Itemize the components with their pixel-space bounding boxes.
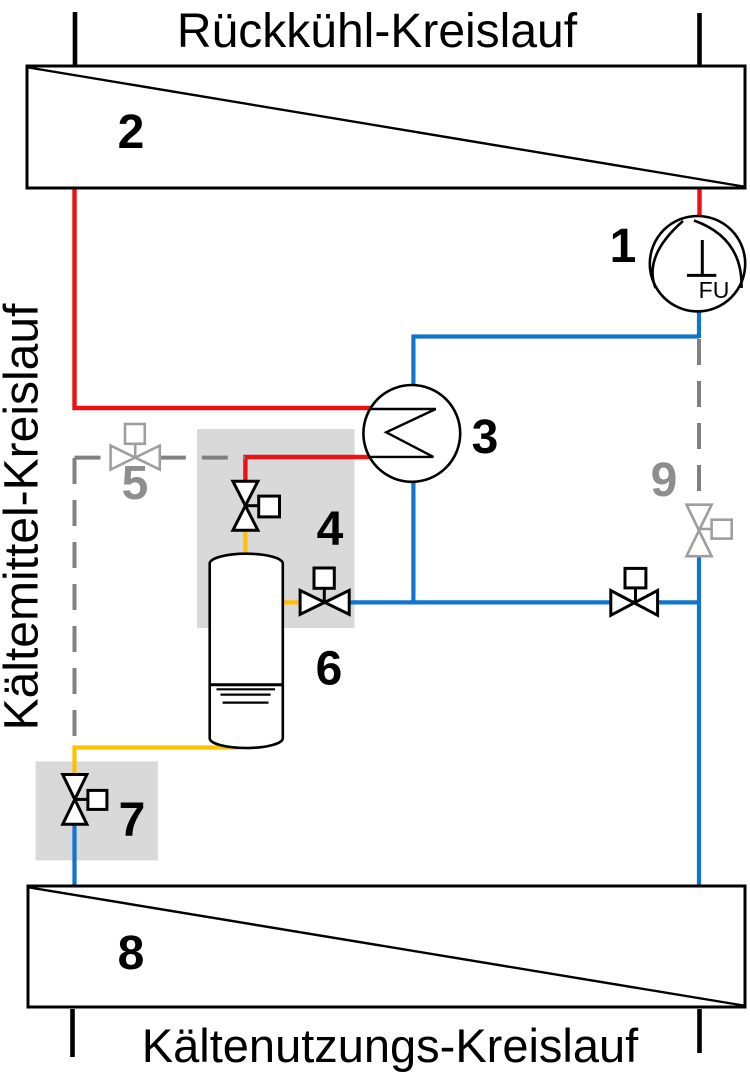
wire yellow: tank 6 side to tank valve — [283, 600, 300, 604]
wire yellow: tank 6 bottom to valve 7 — [75, 748, 239, 776]
svg-text:3: 3 — [472, 411, 499, 464]
wire gray dashed: horizontal into valve 5 — [75, 456, 111, 460]
wire blue: horizontal from HX3 top riser to fan junction — [413, 334, 699, 338]
tick bottom-left — [70, 1009, 75, 1057]
heat exchanger 3 (circle with zigzag) — [363, 385, 460, 482]
wire gray dashed: left vertical bypass — [73, 458, 77, 742]
tick top-right — [697, 13, 702, 65]
svg-text:Kältemittel-Kreislauf: Kältemittel-Kreislauf — [0, 303, 49, 730]
wire gray dashed: fan junction down to valve 9 — [697, 339, 701, 505]
wire blue: HX3 top riser — [411, 335, 415, 387]
gray highlight box around valve 7 — [36, 761, 158, 860]
svg-text:1: 1 — [610, 220, 637, 273]
heat exchanger 8 (bottom rectangle with diagonal) — [28, 886, 745, 1007]
wire red: rect 2 to fan 1 — [697, 188, 701, 218]
svg-text:Rückkühl-Kreislauf: Rückkühl-Kreislauf — [177, 5, 578, 58]
valve 4 (black expansion valve with square) — [233, 481, 280, 530]
wire blue: valve 7 down to rect 8 — [72, 824, 76, 886]
fan U1 (pump/fan circle with FU) — [650, 216, 745, 311]
wire red: condenser riser from heat exchanger 2 down-left then to HX 3 — [75, 188, 371, 408]
valve 9 (gray 2-way valve with actuator square) — [687, 505, 732, 557]
wire blue: HX3 bottom to main horizontal — [411, 481, 415, 602]
svg-text:FU: FU — [699, 277, 730, 303]
svg-text:8: 8 — [118, 927, 145, 980]
svg-text:2: 2 — [118, 106, 145, 159]
valve 5 (gray 2-way valve with actuator square) — [111, 424, 160, 470]
svg-text:5: 5 — [122, 457, 149, 510]
svg-text:6: 6 — [316, 643, 343, 696]
tank outlet valve (black valve with actuator square) — [300, 568, 349, 614]
tick bottom-right — [697, 1009, 702, 1053]
tank 6 (vertical vessel with liquid level) — [210, 554, 283, 748]
wire blue: main horizontal line to right riser — [349, 600, 699, 604]
svg-text:4: 4 — [317, 503, 344, 556]
tank 6 liquid level lines — [210, 685, 283, 703]
wire blue: fan 1 bottom to junction — [697, 311, 701, 338]
svg-text:Kältenutzungs-Kreislauf: Kältenutzungs-Kreislauf — [142, 1019, 639, 1072]
tick top-left — [73, 12, 78, 65]
heat exchanger 2 (top rectangle with diagonal) — [27, 66, 745, 188]
gray highlight box around valve 4 group — [197, 429, 355, 628]
valve 7 (black valve with actuator square) — [63, 775, 107, 825]
svg-text:9: 9 — [651, 454, 678, 507]
wire red: HX 3 lower outlet to valve 4 — [245, 457, 369, 482]
wire gray dashed: valve 5 to red corner — [160, 456, 245, 460]
main line valve (black valve with actuator square) — [611, 568, 658, 615]
svg-text:7: 7 — [119, 794, 146, 847]
wire blue: right riser valve 9 down to rect 8 — [697, 556, 701, 886]
wire yellow: valve 4 to tank 6 top — [243, 530, 247, 558]
